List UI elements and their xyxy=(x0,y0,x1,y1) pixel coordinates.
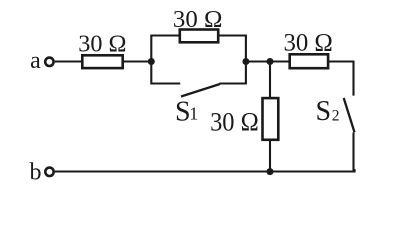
svg-text:30 Ω: 30 Ω xyxy=(283,30,332,57)
wire R4 to S2 top contact xyxy=(329,62,354,96)
terminal a xyxy=(45,58,53,66)
svg-text:30 Ω: 30 Ω xyxy=(173,6,223,33)
wire R2 to node 2 xyxy=(220,36,246,63)
resistor R3 xyxy=(263,98,279,140)
wire a to R1 xyxy=(55,60,82,62)
svg-text:30 Ω: 30 Ω xyxy=(78,30,126,57)
wire R1 to node 1 xyxy=(124,60,151,62)
switch S2 blade xyxy=(344,98,355,132)
svg-text:b: b xyxy=(30,160,42,186)
wire node 1 down to S1 left contact xyxy=(151,61,180,84)
svg-text:S: S xyxy=(316,96,332,127)
svg-text:1: 1 xyxy=(189,104,198,124)
wire S2 bottom contact to bottom rail xyxy=(352,133,354,171)
terminal b xyxy=(45,168,53,176)
node 3 xyxy=(267,58,274,65)
switch S1 blade xyxy=(181,84,220,97)
node 2 xyxy=(242,58,249,65)
resistor R4 xyxy=(290,54,328,68)
svg-text:2: 2 xyxy=(332,108,340,125)
resistor R2 xyxy=(180,30,218,43)
node 1 xyxy=(148,58,155,65)
resistor R1 xyxy=(82,55,122,68)
wire S1 right contact to node 2 xyxy=(220,61,246,84)
wire node 3 to R4 xyxy=(270,60,289,62)
svg-text:30 Ω: 30 Ω xyxy=(210,108,259,137)
wire node 1 up to R2 xyxy=(151,36,179,63)
bottom rail wire b to S2 xyxy=(55,169,355,172)
svg-text:S: S xyxy=(175,96,191,127)
wire R3 to node 4 xyxy=(269,141,271,172)
wire node 2 to node 3 xyxy=(246,60,270,62)
node 4 xyxy=(267,168,274,175)
svg-text:a: a xyxy=(30,48,41,74)
wire node 3 down to R3 xyxy=(269,62,271,98)
